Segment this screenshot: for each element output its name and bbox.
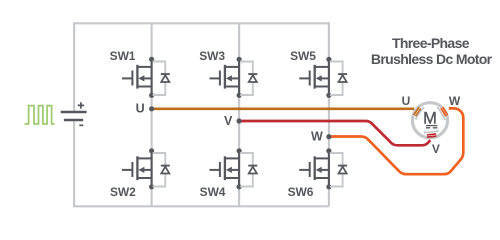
transistor SW5 (N-MOSFET) [299, 57, 331, 98]
transistor SW1 (N-MOSFET) [122, 57, 154, 98]
wire: DC bus bottom rail [73, 205, 329, 207]
node W (junction dot) [326, 134, 331, 139]
wire: half-bridge leg 1 (SW1/SW2) [151, 23, 153, 206]
transistor SW4 (N-MOSFET) [210, 148, 242, 189]
wire: phase V (node V to motor) [239, 121, 430, 145]
svg-text:SW3: SW3 [199, 49, 225, 63]
battery (DC supply) [61, 102, 87, 125]
svg-text:SW6: SW6 [288, 185, 314, 199]
svg-text:SW2: SW2 [110, 185, 136, 199]
body diode of SW1 [153, 62, 170, 96]
label: Three-Phase Brushless Dc Motor (title) [371, 35, 493, 67]
motor terminal U (brush pad) [413, 106, 425, 120]
svg-text:V: V [224, 114, 233, 128]
motor terminal V (brush pad) [425, 130, 439, 137]
wire: left rail lower segment (battery - side) [73, 121, 75, 206]
svg-text:V: V [432, 142, 440, 156]
svg-text:U: U [402, 94, 411, 108]
wire: left rail upper segment (battery + side) [73, 22, 75, 111]
motor terminal W (brush pad) [437, 105, 449, 119]
svg-text:Brushless Dc Motor: Brushless Dc Motor [371, 51, 493, 67]
PWM input signal (square wave) [25, 106, 55, 124]
wire: DC bus top rail [74, 22, 329, 24]
motor symbol M with underlines [423, 109, 437, 128]
wire: half-bridge leg 3 (SW5/SW6) [328, 22, 330, 206]
wire: phase W (node W to motor) [329, 108, 463, 174]
body diode of SW6 [330, 153, 347, 187]
transistor SW6 (N-MOSFET) [299, 148, 331, 189]
body diode of SW2 [153, 153, 170, 187]
node U (junction dot) [149, 106, 154, 111]
svg-text:SW1: SW1 [110, 49, 136, 63]
svg-text:SW5: SW5 [290, 49, 316, 63]
svg-text:SW4: SW4 [200, 185, 226, 199]
svg-text:M: M [423, 109, 437, 127]
wire: half-bridge leg 2 (SW3/SW4) [238, 23, 240, 206]
node V (junction dot) [237, 118, 242, 123]
wire: phase U (node U to motor) [152, 107, 415, 110]
transistor SW3 (N-MOSFET) [210, 57, 242, 98]
body diode of SW4 [240, 153, 257, 187]
svg-text:Three-Phase: Three-Phase [392, 35, 470, 51]
svg-text:W: W [449, 94, 461, 108]
transistor SW2 (N-MOSFET) [122, 148, 154, 189]
svg-text:W: W [311, 130, 323, 144]
motor M (three-phase BLDC) body circle [412, 103, 447, 138]
svg-text:U: U [136, 102, 145, 116]
body diode of SW3 [240, 62, 257, 96]
body diode of SW5 [330, 62, 347, 96]
